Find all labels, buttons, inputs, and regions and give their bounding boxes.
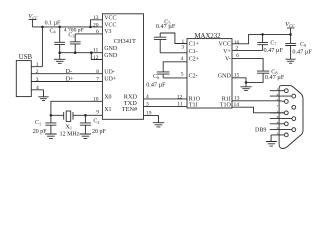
svg-text:12: 12 bbox=[177, 94, 183, 100]
wire T1O to DB9 pin3 bbox=[232, 107, 284, 113]
svg-text:20 pF: 20 pF bbox=[33, 129, 48, 135]
wire RXD to R1O bbox=[144, 98, 188, 100]
svg-text:TEN#: TEN# bbox=[122, 106, 138, 113]
svg-text:20 pF: 20 pF bbox=[92, 129, 107, 135]
svg-text:6: 6 bbox=[96, 29, 99, 35]
svg-text:UD+: UD+ bbox=[104, 77, 117, 83]
DB9 pin 6 bbox=[292, 94, 296, 98]
ground USB pin4 bbox=[38, 90, 48, 101]
capacitor C2 bbox=[80, 115, 91, 134]
svg-text:C6: C6 bbox=[153, 74, 159, 80]
wire USB pin1 to VCC rail bbox=[41, 27, 43, 67]
ground DB9 bbox=[266, 135, 277, 146]
svg-text:14: 14 bbox=[234, 102, 240, 108]
svg-text:4: 4 bbox=[146, 94, 149, 100]
svg-text:4: 4 bbox=[277, 120, 279, 124]
wire TXD to T1I bbox=[144, 105, 188, 107]
svg-text:0.1 µF: 0.1 µF bbox=[45, 20, 61, 26]
capacitor C9 bbox=[285, 34, 296, 59]
svg-text:19: 19 bbox=[146, 110, 152, 116]
svg-text:C9: C9 bbox=[300, 42, 306, 48]
svg-text:C2-: C2- bbox=[189, 74, 198, 80]
svg-text:4: 4 bbox=[181, 56, 184, 62]
node C7 top bbox=[261, 33, 264, 36]
svg-text:D+: D+ bbox=[66, 77, 74, 83]
svg-text:9: 9 bbox=[96, 109, 99, 115]
wire X0 bbox=[51, 101, 103, 115]
capacitor C8 bbox=[232, 58, 269, 82]
svg-text:7: 7 bbox=[277, 104, 279, 108]
svg-text:C4: C4 bbox=[50, 28, 57, 34]
node USB riser junction bbox=[41, 26, 44, 29]
svg-text:15: 15 bbox=[234, 72, 240, 78]
svg-text:V+: V+ bbox=[223, 49, 231, 55]
svg-text:7: 7 bbox=[96, 77, 99, 83]
svg-text:13: 13 bbox=[93, 15, 99, 21]
capacitor C7 bbox=[232, 34, 268, 50]
svg-text:20: 20 bbox=[93, 22, 99, 28]
svg-text:3: 3 bbox=[36, 77, 39, 83]
IC U2 MAX232 box bbox=[187, 39, 232, 108]
USB connector bbox=[16, 61, 31, 97]
svg-text:V3: V3 bbox=[104, 29, 111, 35]
svg-text:UD-: UD- bbox=[104, 69, 115, 75]
ground C9 bbox=[286, 59, 296, 63]
node C3 bottom bbox=[74, 51, 77, 54]
wire pin13 branch bbox=[91, 20, 103, 27]
svg-text:8: 8 bbox=[96, 69, 99, 75]
svg-text:C1+: C1+ bbox=[189, 42, 200, 48]
svg-text:1: 1 bbox=[36, 62, 39, 68]
svg-text:GND: GND bbox=[104, 46, 118, 52]
IC U1 CH341T box bbox=[102, 14, 143, 120]
svg-text:12: 12 bbox=[93, 55, 99, 61]
svg-text:11: 11 bbox=[177, 102, 183, 108]
svg-text:0.47 µF: 0.47 µF bbox=[264, 47, 284, 54]
ground TEN# bbox=[153, 123, 164, 127]
svg-text:T1O: T1O bbox=[220, 102, 232, 108]
svg-text:C2+: C2+ bbox=[189, 57, 200, 63]
svg-text:X1: X1 bbox=[104, 107, 111, 113]
svg-text:0.47 µF: 0.47 µF bbox=[156, 23, 176, 30]
svg-text:3: 3 bbox=[181, 45, 184, 51]
svg-text:6: 6 bbox=[236, 53, 239, 59]
ground C1 bbox=[45, 134, 56, 138]
svg-text:0.47 µF: 0.47 µF bbox=[292, 48, 312, 55]
svg-text:VCC: VCC bbox=[104, 23, 116, 29]
node pin13 branch junction bbox=[89, 26, 92, 29]
svg-text:0.47 µF: 0.47 µF bbox=[146, 81, 166, 88]
svg-text:C3: C3 bbox=[68, 32, 74, 38]
wire GND pin15 bbox=[232, 78, 246, 87]
svg-text:GND: GND bbox=[218, 74, 232, 80]
capacitor C6 bbox=[157, 62, 187, 78]
DB9 pin 5 bbox=[284, 133, 288, 137]
svg-text:T1I: T1I bbox=[189, 102, 198, 108]
svg-text:5: 5 bbox=[277, 131, 279, 135]
svg-text:MAX232: MAX232 bbox=[195, 33, 222, 40]
DB9 tiny pin digits bbox=[277, 87, 279, 135]
wire GND bus bbox=[60, 52, 103, 54]
svg-text:C1: C1 bbox=[35, 120, 41, 126]
svg-text:C1-: C1- bbox=[189, 49, 198, 55]
ground MAX232 bbox=[240, 87, 251, 91]
svg-text:13: 13 bbox=[234, 95, 240, 101]
USB pin stubs bbox=[31, 67, 102, 90]
svg-text:V-: V- bbox=[225, 57, 231, 63]
crystal X1 12MHz bbox=[64, 112, 73, 120]
svg-text:C2: C2 bbox=[93, 119, 99, 125]
wire VCC pin16 bbox=[232, 34, 291, 43]
svg-text:2: 2 bbox=[36, 69, 39, 75]
DB9 pin stubs left column bbox=[270, 91, 285, 135]
svg-text:C7: C7 bbox=[270, 41, 276, 47]
svg-text:8: 8 bbox=[277, 115, 279, 119]
svg-text:4: 4 bbox=[36, 85, 39, 91]
node GND pin12 branch bbox=[90, 51, 93, 54]
node GND/C8 bbox=[245, 81, 248, 84]
ground bus symbol bbox=[54, 53, 65, 64]
DB9 pin 2 bbox=[284, 100, 288, 104]
svg-text:6: 6 bbox=[277, 93, 279, 97]
node C1 junction bbox=[50, 114, 53, 117]
ground C2 bbox=[80, 134, 91, 138]
svg-text:9: 9 bbox=[277, 126, 279, 130]
svg-text:2: 2 bbox=[236, 46, 239, 52]
DB9 pin 8 bbox=[292, 117, 296, 121]
DB9 pin 3 bbox=[284, 111, 288, 115]
DB9 pin 1 bbox=[284, 89, 288, 93]
svg-text:VCC: VCC bbox=[104, 16, 116, 22]
wire GND pin12 bbox=[91, 53, 102, 60]
node C4 top junction bbox=[58, 26, 61, 29]
svg-text:5: 5 bbox=[181, 71, 184, 77]
svg-text:D-: D- bbox=[66, 69, 72, 75]
svg-text:10: 10 bbox=[93, 96, 99, 102]
node C4 bottom bbox=[58, 51, 61, 54]
wire X1 / crystal node bbox=[51, 114, 103, 116]
VCC power symbol right bbox=[287, 28, 294, 35]
svg-text:3: 3 bbox=[277, 109, 279, 113]
svg-text:USB: USB bbox=[19, 54, 33, 61]
wire VCC rail bbox=[32, 26, 102, 28]
svg-text:VCC: VCC bbox=[218, 42, 230, 48]
node C2 junction bbox=[84, 114, 87, 117]
connector DB9 shell bbox=[279, 86, 303, 149]
wire R1I to DB9 pin2 bbox=[232, 100, 285, 103]
svg-text:4 700 pF: 4 700 pF bbox=[64, 27, 84, 33]
svg-text:2: 2 bbox=[277, 98, 279, 102]
wire V3 pin6 bbox=[75, 33, 102, 35]
DB9 pin 7 bbox=[292, 105, 296, 109]
VCC power symbol left bbox=[29, 20, 37, 27]
svg-text:CH341T: CH341T bbox=[114, 38, 136, 45]
svg-text:11: 11 bbox=[93, 48, 99, 54]
svg-text:VCC: VCC bbox=[28, 13, 38, 20]
DB9 pin 9 bbox=[292, 128, 296, 132]
svg-text:X1: X1 bbox=[66, 125, 72, 131]
node VCC drop bbox=[289, 33, 292, 36]
capacitor C1 bbox=[45, 115, 56, 134]
svg-text:1: 1 bbox=[277, 87, 279, 91]
DB9 pin 4 bbox=[284, 122, 288, 126]
svg-text:12 MHz: 12 MHz bbox=[60, 131, 80, 137]
svg-text:VCC: VCC bbox=[285, 21, 295, 28]
svg-text:0.47 µF: 0.47 µF bbox=[265, 74, 285, 81]
svg-text:DB9: DB9 bbox=[255, 127, 266, 133]
capacitor C3 bbox=[70, 34, 81, 53]
DB9 pin stubs right column bbox=[270, 96, 292, 130]
svg-text:GND: GND bbox=[104, 53, 118, 59]
svg-text:X0: X0 bbox=[104, 94, 111, 100]
capacitor C5 bbox=[154, 33, 187, 53]
svg-text:3: 3 bbox=[146, 102, 149, 108]
wire TEN# pin19 bbox=[144, 116, 159, 123]
capacitor C4 bbox=[54, 27, 65, 53]
